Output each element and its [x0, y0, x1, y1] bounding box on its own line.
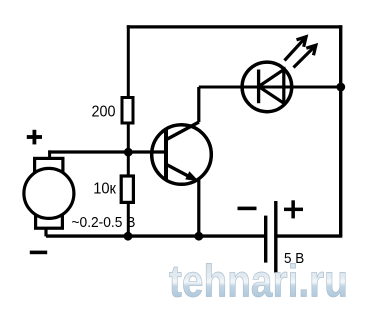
svg-text:200: 200 — [92, 104, 116, 121]
LED light arrow 2 — [294, 45, 316, 67]
wire: bottom horizontal right segment — [277, 234, 342, 237]
transistor Q1 collector diagonal — [167, 122, 200, 140]
node: emitter junction dot — [194, 232, 203, 241]
transistor Q1 base bar — [164, 130, 168, 179]
watermark tehnari.ru — [169, 256, 348, 307]
node: bottom-left junction dot — [124, 232, 133, 241]
battery minus sign — [238, 207, 257, 211]
wire: top horizontal — [127, 25, 342, 28]
wire: sensor top stub — [48, 150, 51, 158]
sensor minus sign — [30, 251, 47, 255]
transistor Q1 emitter diagonal — [167, 165, 191, 178]
sensor plus sign — [27, 130, 42, 145]
svg-text:10к: 10к — [93, 181, 116, 198]
wire: emitter vertical down to bottom wire — [197, 180, 200, 236]
battery plus sign — [284, 200, 303, 218]
LED D1 cathode bar — [257, 70, 260, 104]
LED D1 circle — [242, 62, 292, 112]
wire: sensor bottom stub — [44, 228, 47, 236]
wire: right vertical — [339, 25, 342, 236]
transistor Q1 circle — [152, 125, 212, 185]
resistor R1 box — [122, 98, 133, 124]
svg-text:tehnari.ru: tehnari.ru — [169, 256, 348, 307]
svg-text:~0.2-0.5 В: ~0.2-0.5 В — [72, 215, 136, 231]
wire: base horizontal (device to transistor) — [48, 150, 165, 153]
LED D1 triangle — [259, 70, 284, 104]
node: base junction dot — [124, 148, 133, 157]
node: LED-right junction dot — [336, 83, 345, 92]
LED light arrow 1 — [285, 37, 307, 61]
battery B1 short bar (negative) — [264, 216, 267, 263]
battery B1 long bar (positive) — [274, 201, 277, 273]
wire: left vertical between R1 and R2 — [127, 123, 130, 176]
wire: bottom horizontal left segment — [46, 234, 264, 237]
wire: LED horizontal (collector node to right wire) — [199, 86, 340, 89]
sensor M1 circle body — [24, 168, 74, 218]
wire: left vertical upper (top wire to R1) — [127, 25, 130, 97]
transistor Q1 emitter arrowhead — [185, 171, 199, 181]
sensor M1 top terminal rect — [35, 158, 63, 180]
wire: left vertical lower (R2 to bottom) — [127, 202, 130, 236]
wire: collector vertical up to LED wire — [197, 87, 200, 122]
resistor R2 box — [121, 176, 133, 202]
sensor M1 bottom terminal rect — [36, 207, 63, 228]
